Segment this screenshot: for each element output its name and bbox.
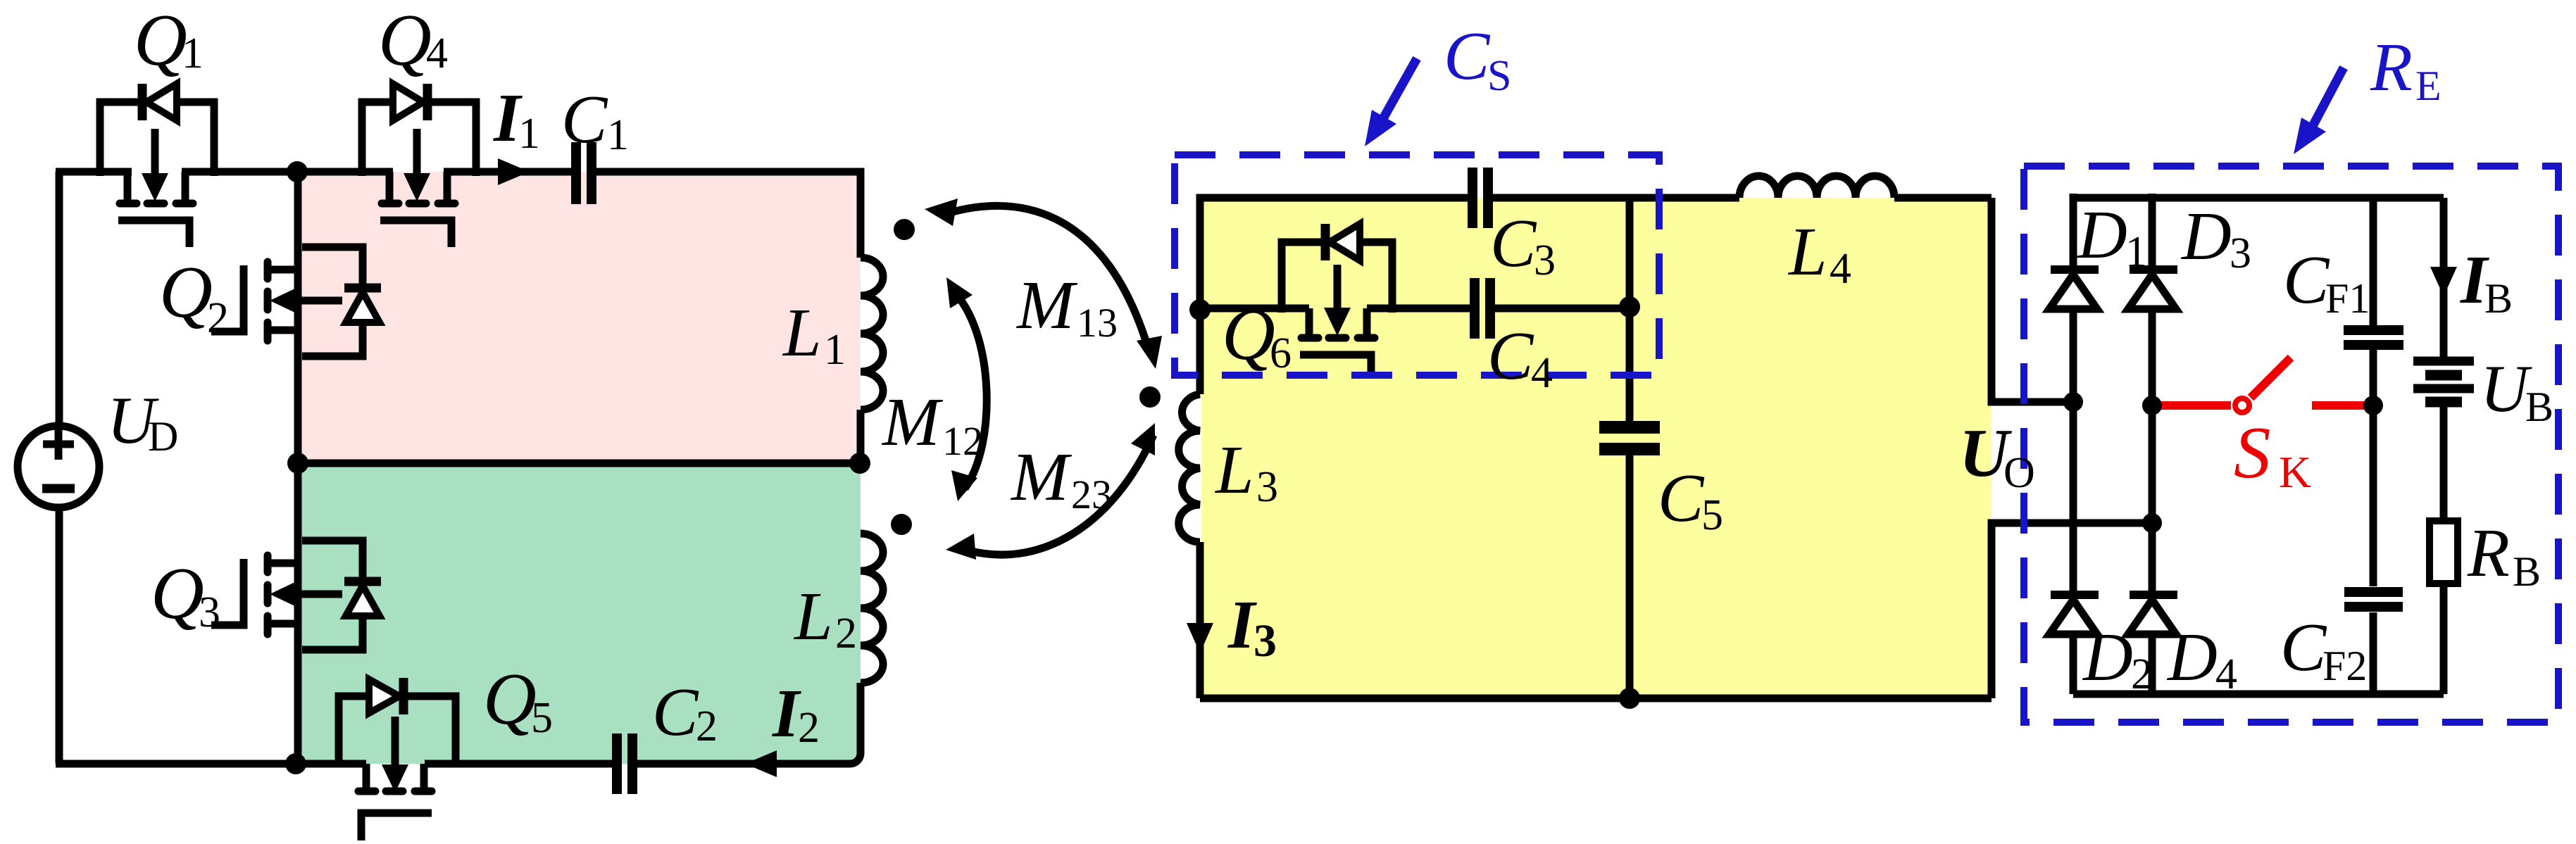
wire rectifier bottom rail bbox=[2073, 691, 2444, 698]
capacitor CF2 bbox=[2344, 592, 2403, 607]
svg-text:L: L bbox=[793, 579, 833, 655]
label C5 bbox=[1658, 460, 1723, 539]
label I2 bbox=[772, 676, 820, 752]
svg-text:I: I bbox=[772, 676, 801, 752]
svg-text:2: 2 bbox=[2131, 650, 2153, 698]
capacitor C4 bbox=[1475, 278, 1490, 339]
svg-text:D: D bbox=[2076, 197, 2127, 273]
wire D4 anode to bottom rail bbox=[2149, 631, 2156, 694]
svg-text:D: D bbox=[2082, 619, 2133, 695]
svg-text:K: K bbox=[2279, 447, 2311, 497]
svg-text:S: S bbox=[1487, 52, 1511, 100]
label M13 bbox=[1015, 267, 1118, 346]
wire left vertical upper (UD to top rail) bbox=[56, 172, 63, 426]
svg-text:Q: Q bbox=[378, 0, 432, 81]
current arrow I1 bbox=[498, 158, 530, 185]
wire resistor RB to bottom rail bbox=[2440, 584, 2448, 694]
wire D2 anode to bottom rail bbox=[2070, 631, 2077, 694]
wire L2 bottom to bottom rail corner bbox=[857, 683, 865, 750]
current arrow IB bbox=[2430, 267, 2457, 296]
wire L3 top segment bbox=[1196, 310, 1204, 394]
transistor Q6 bbox=[1282, 224, 1392, 372]
svg-text:S: S bbox=[2234, 411, 2271, 493]
wire top rail middle segment (Q1 to Q4) bbox=[182, 168, 393, 176]
svg-text:23: 23 bbox=[1071, 472, 1112, 517]
svg-text:3: 3 bbox=[1256, 463, 1278, 511]
wire output step lower bbox=[1992, 523, 2152, 698]
svg-text:I: I bbox=[1227, 587, 1257, 663]
wire mid rail (pink/green boundary) bbox=[298, 460, 861, 467]
label Q6 bbox=[1222, 293, 1292, 377]
svg-text:R: R bbox=[2467, 515, 2510, 591]
label L2 bbox=[793, 579, 857, 657]
transistor Q1 bbox=[100, 84, 214, 247]
label Q1 bbox=[134, 0, 204, 81]
label C4 bbox=[1487, 318, 1553, 397]
svg-text:1: 1 bbox=[2125, 228, 2147, 276]
junction AC2 node bbox=[2142, 513, 2162, 533]
pointer arrow RE bbox=[2294, 68, 2344, 154]
label D2 bbox=[2082, 619, 2153, 698]
inductor L3 bbox=[1179, 394, 1200, 542]
node A primary-loop-1 pink highlight bbox=[299, 172, 861, 463]
wire secondary top rail C3 to L4 bbox=[1492, 194, 1739, 202]
junction CF mid node bbox=[2363, 396, 2383, 415]
node C secondary-loop yellow highlight bbox=[1201, 198, 1992, 698]
svg-text:4: 4 bbox=[1531, 349, 1553, 397]
svg-text:1: 1 bbox=[824, 326, 846, 374]
transistor Q5 bbox=[339, 678, 456, 840]
label I3 bbox=[1227, 587, 1277, 667]
wire battery to resistor RB bbox=[2440, 406, 2448, 521]
svg-text:C: C bbox=[561, 82, 608, 158]
G_MIDDLE bbox=[1200, 198, 2152, 698]
svg-text:Q: Q bbox=[483, 657, 537, 740]
svg-text:C: C bbox=[2280, 610, 2327, 686]
svg-text:C: C bbox=[2283, 242, 2330, 318]
label L1 bbox=[782, 295, 846, 374]
label UO bold bbox=[1959, 415, 2035, 497]
label UD bbox=[107, 383, 178, 460]
wire bottom rail left segment bbox=[56, 760, 366, 768]
wire C5 branch lower bbox=[1626, 453, 1634, 698]
wire D1 anode to D2 cathode bbox=[2070, 308, 2077, 596]
polarity dot L3 bbox=[1139, 386, 1161, 408]
label RB bbox=[2467, 515, 2541, 595]
label M12 bbox=[881, 384, 983, 464]
label RE blue bbox=[2370, 30, 2441, 109]
polarity dot L1 bbox=[894, 219, 915, 240]
label UB bbox=[2480, 351, 2553, 430]
svg-text:B: B bbox=[2513, 548, 2541, 595]
svg-text:L: L bbox=[1787, 214, 1827, 290]
wire battery column top bbox=[2440, 198, 2448, 358]
junction switch tap node bbox=[2142, 396, 2162, 415]
svg-text:2: 2 bbox=[207, 294, 229, 342]
svg-text:L: L bbox=[1214, 432, 1254, 508]
svg-text:4: 4 bbox=[426, 30, 448, 77]
svg-text:1: 1 bbox=[518, 110, 540, 158]
diode D3 bbox=[2128, 270, 2177, 309]
coupling arrow M12 bbox=[946, 277, 987, 501]
pointer arrow CS bbox=[1365, 58, 1417, 146]
svg-text:5: 5 bbox=[1701, 491, 1723, 539]
label C3 bbox=[1490, 206, 1556, 284]
svg-text:O: O bbox=[2003, 449, 2035, 497]
label IB bbox=[2460, 242, 2513, 322]
dashed box RE bbox=[2024, 166, 2558, 722]
svg-text:C: C bbox=[652, 674, 699, 750]
svg-text:C: C bbox=[1658, 460, 1705, 536]
label SK red bbox=[2234, 411, 2311, 497]
label I1 bbox=[493, 80, 540, 158]
node B primary-loop-2 green highlight bbox=[299, 463, 861, 764]
label Q5 bbox=[483, 657, 553, 742]
wire D3 anode to D4 cathode bbox=[2149, 308, 2156, 596]
label CF2 bbox=[2280, 610, 2367, 689]
label CF1 bbox=[2283, 242, 2370, 322]
svg-text:F1: F1 bbox=[2325, 275, 2370, 322]
svg-text:D: D bbox=[2180, 199, 2232, 275]
svg-text:13: 13 bbox=[1077, 300, 1118, 346]
polarity dot L2 bbox=[891, 514, 912, 535]
svg-text:Q: Q bbox=[151, 552, 204, 634]
svg-text:3: 3 bbox=[1253, 615, 1277, 667]
capacitor CF1 bbox=[2344, 330, 2403, 345]
inductor L4 bbox=[1739, 176, 1894, 198]
capacitor C3 bbox=[1473, 168, 1488, 228]
svg-text:Q: Q bbox=[159, 251, 213, 333]
transistor Q3 bbox=[211, 541, 381, 650]
current arrow I3 bbox=[1187, 623, 1213, 653]
svg-text:C: C bbox=[1490, 206, 1537, 282]
wire top rail after C1 to corner bbox=[596, 172, 861, 258]
svg-text:M: M bbox=[1010, 439, 1073, 515]
svg-text:D: D bbox=[148, 413, 178, 460]
wire L3 bottom segment bbox=[1196, 542, 1204, 698]
junction L1-L2 node bbox=[849, 453, 870, 474]
junction C5 top node bbox=[1619, 296, 1640, 317]
svg-text:B: B bbox=[2525, 384, 2553, 430]
svg-text:1: 1 bbox=[182, 30, 204, 77]
wire bottom rail segment Q5 to C2 bbox=[425, 760, 612, 768]
wire center leg bbox=[294, 172, 302, 764]
wire rectifier top rail bbox=[2073, 194, 2444, 202]
wire CF2 bottom bbox=[2370, 612, 2377, 694]
inductor L1 bbox=[861, 258, 883, 410]
junction bottom rail node bbox=[285, 753, 306, 774]
svg-text:12: 12 bbox=[942, 418, 983, 464]
wire output step upper bbox=[1992, 198, 2073, 402]
label D4 bbox=[2166, 619, 2237, 698]
wire CF1 top bbox=[2370, 198, 2377, 325]
junction secondary mid-left node bbox=[1189, 299, 1211, 320]
wire L1 bottom to mid node bbox=[857, 410, 865, 463]
coupling arrow M13 bbox=[925, 199, 1162, 369]
junction top rail node bbox=[287, 161, 308, 182]
capacitor C2 bbox=[617, 733, 632, 794]
junction mid rail left node bbox=[287, 453, 308, 474]
svg-text:F2: F2 bbox=[2322, 643, 2367, 689]
svg-text:U: U bbox=[2480, 351, 2532, 426]
diode D4 bbox=[2128, 595, 2177, 634]
wire top rail right segment (Q4 to C1) bbox=[444, 168, 571, 176]
svg-text:E: E bbox=[2415, 63, 2441, 109]
svg-text:M: M bbox=[1015, 267, 1078, 344]
transistor Q4 bbox=[362, 84, 476, 247]
junction C5 bottom node bbox=[1619, 688, 1640, 709]
wire secondary mid left (node to Q6) bbox=[1200, 305, 1309, 313]
svg-text:6: 6 bbox=[1270, 329, 1292, 377]
label C1 bbox=[561, 82, 629, 159]
svg-text:1: 1 bbox=[607, 111, 629, 159]
wire left vertical lower (UD to bottom rail) bbox=[56, 508, 63, 764]
wire secondary mid Q6 to C4 bbox=[1367, 305, 1470, 313]
svg-text:2: 2 bbox=[696, 703, 718, 750]
coupling arrow M23 bbox=[946, 423, 1155, 560]
diode D1 bbox=[2049, 270, 2099, 309]
current arrow I2 bbox=[745, 750, 777, 777]
svg-text:4: 4 bbox=[1830, 245, 1851, 293]
label C2 bbox=[652, 674, 718, 750]
voltage source UD bbox=[18, 426, 99, 508]
svg-text:Q: Q bbox=[134, 0, 187, 81]
wire secondary top rail left bbox=[1200, 198, 1468, 310]
wire C5 branch upper bbox=[1626, 198, 1634, 421]
svg-text:D: D bbox=[2166, 619, 2218, 695]
resistor RB bbox=[2430, 521, 2458, 584]
label D3 bbox=[2180, 199, 2251, 277]
svg-text:C: C bbox=[1444, 18, 1491, 94]
svg-text:Q: Q bbox=[1222, 293, 1275, 375]
wire top rail left segment bbox=[56, 168, 132, 176]
switch SK red bbox=[2155, 358, 2370, 412]
label L4 bbox=[1787, 214, 1851, 293]
transistor Q2 bbox=[211, 247, 381, 356]
capacitor C5 bbox=[1599, 427, 1660, 449]
label Q4 bbox=[378, 0, 448, 81]
svg-text:3: 3 bbox=[2230, 229, 2251, 277]
svg-text:2: 2 bbox=[798, 704, 820, 752]
wire D3 cathode to top rail bbox=[2149, 194, 2156, 267]
label D1 bbox=[2076, 197, 2147, 276]
svg-text:5: 5 bbox=[531, 694, 553, 742]
label L3 bbox=[1214, 432, 1278, 511]
battery UB bbox=[2413, 361, 2474, 402]
svg-text:B: B bbox=[2484, 275, 2513, 322]
wire secondary mid C4 to C5 node bbox=[1494, 305, 1630, 313]
wire bottom rail segment C2 to L2 corner bbox=[637, 746, 861, 764]
label Q3 bbox=[151, 552, 220, 636]
svg-text:L: L bbox=[782, 295, 822, 371]
wire D1 cathode to top rail bbox=[2070, 194, 2077, 267]
svg-text:3: 3 bbox=[199, 588, 220, 636]
svg-text:2: 2 bbox=[835, 610, 857, 657]
diode D2 bbox=[2049, 595, 2099, 634]
label CS blue bbox=[1444, 18, 1511, 100]
svg-text:M: M bbox=[881, 384, 944, 460]
dashed box CS bbox=[1175, 155, 1659, 375]
junction AC1 node bbox=[2063, 392, 2083, 412]
svg-text:3: 3 bbox=[1534, 237, 1556, 284]
wire secondary top rail after L4 bbox=[1894, 194, 1992, 202]
wire CF1 bottom to CF2 top bbox=[2370, 350, 2377, 586]
svg-text:C: C bbox=[1487, 318, 1534, 394]
label M23 bbox=[1010, 439, 1112, 517]
wire secondary bottom rail bbox=[1200, 695, 1992, 703]
capacitor C1 bbox=[576, 142, 592, 204]
svg-text:R: R bbox=[2370, 30, 2413, 106]
inductor L2 bbox=[861, 534, 883, 683]
svg-text:4: 4 bbox=[2215, 650, 2237, 698]
label Q2 bbox=[159, 251, 229, 342]
